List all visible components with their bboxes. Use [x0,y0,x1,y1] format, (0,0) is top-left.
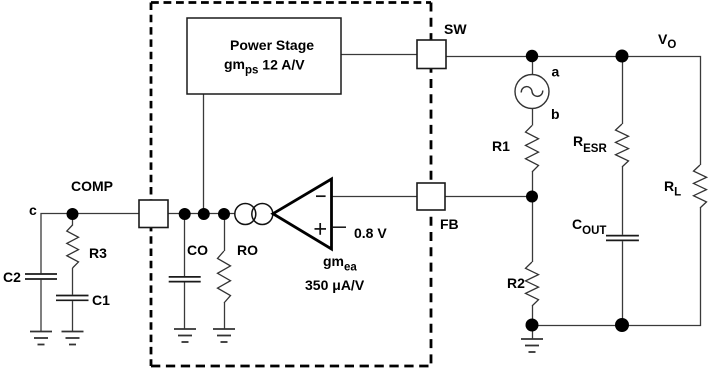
COMP pin square [139,200,168,228]
svg-text:RO: RO [237,242,258,258]
wire: R2 ground stem [532,325,534,339]
svg-text:c: c [29,202,37,218]
ground below C1 [62,332,84,345]
wire: SW node down to source a [532,56,534,75]
svg-text:SW: SW [444,21,467,37]
node dot RO [218,208,230,220]
svg-text:C1: C1 [92,292,110,308]
node dot R2 bottom [526,319,539,332]
svg-text:a: a [552,64,560,80]
svg-text:Power Stage: Power Stage [230,37,314,53]
wire: RO to ground [224,303,226,329]
wire: error amp inverting input to FB pin [332,196,417,198]
svg-text:FB: FB [440,216,459,232]
resistor RL [694,165,707,208]
resistor R3 [67,225,79,268]
ground below RO [213,329,235,342]
svg-text:COMP: COMP [71,178,113,194]
wire: bottom rail mid [532,325,622,327]
wire: COMP node to R3 [72,214,74,226]
wire: RL lower segment to bottom rail [622,208,701,326]
FB pin square [417,183,445,210]
0.8V reference stub [332,226,347,228]
node dot power stage stem [198,208,210,220]
ac source (injection) [515,75,549,109]
svg-text:R1: R1 [492,138,510,154]
wire: power stage output to SW [341,54,417,56]
resistor R2 [526,262,539,306]
wire: Vo node down to RESR [622,56,624,124]
power stage block U1 [187,18,341,94]
wire: R2 to ground node [532,306,534,325]
capacitor C2 [25,274,57,279]
svg-text:350 μA/V: 350 μA/V [305,277,365,293]
ground below R2 [521,339,543,352]
wire: C2 to ground [40,280,42,332]
node dot FB divider [526,191,538,203]
svg-text:R2: R2 [507,275,525,291]
node dot CO [179,208,191,220]
wire: CO to ground [184,282,186,329]
wire: C1 to ground [72,301,74,331]
wire: R1 to FB node [532,172,534,197]
svg-text:CO: CO [187,242,208,258]
node dot COMP [67,208,79,220]
wire: power stage input stem [203,94,205,214]
wire: COUT to bottom rail [622,241,624,325]
SW pin square [417,40,446,69]
capacitor COUT [606,236,639,241]
svg-text:b: b [551,106,560,122]
dashed IC boundary box [151,3,431,367]
resistor RO [218,251,231,303]
resistor R1 [526,126,539,173]
node dot bottom rail [615,318,629,332]
wire: R3 to C1 [72,268,74,295]
wire: RESR to COUT [622,167,624,235]
ground below C2 [30,332,52,345]
svg-text:R3: R3 [89,245,107,261]
wire: CO stem [184,214,186,276]
wire: COMP pin to gm output [168,213,235,215]
wire: source b to R1 [532,109,534,126]
ground below CO [174,329,196,342]
node dot source top [526,50,538,62]
minus input mark [316,195,326,197]
wire: SW to Vo rail [446,57,701,166]
node dot Vo [616,50,629,63]
wire: COMP row left [41,214,139,274]
resistor RESR [616,124,629,167]
svg-text:0.8 V: 0.8 V [354,225,387,241]
svg-text:C2: C2 [3,269,21,285]
plus input mark [315,223,327,235]
wire: FB node down to R2 [532,197,534,263]
gm output current-mirror circles [235,204,273,225]
wire: RO stem [224,214,226,251]
capacitor CO [169,277,201,282]
wire: FB pin to divider node [445,196,532,198]
op-amp gm error amplifier [273,179,332,249]
capacitor C1 [56,296,89,301]
